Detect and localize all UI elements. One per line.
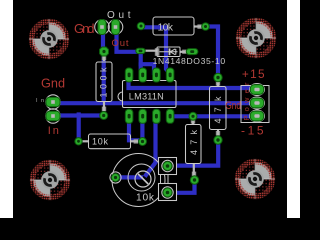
svg-text:Gnd: Gnd: [74, 21, 95, 36]
svg-text:Out: Out: [107, 10, 131, 21]
svg-text:In: In: [36, 98, 44, 104]
svg-text:47k: 47k: [189, 130, 199, 156]
svg-text:Gnd: Gnd: [41, 76, 65, 90]
svg-text:1N4148DO35-10: 1N4148DO35-10: [153, 56, 226, 66]
svg-text:In: In: [48, 125, 59, 137]
svg-text:47k: 47k: [213, 96, 223, 124]
svg-text:10k: 10k: [158, 21, 174, 33]
svg-text:Out: Out: [112, 38, 129, 49]
svg-text:LM311N: LM311N: [129, 92, 164, 102]
svg-text:-15: -15: [241, 124, 264, 138]
svg-text:10k: 10k: [92, 137, 109, 147]
svg-text:Gnd: Gnd: [225, 100, 241, 112]
svg-text:10k: 10k: [136, 193, 155, 204]
svg-text:+15: +15: [242, 67, 265, 81]
